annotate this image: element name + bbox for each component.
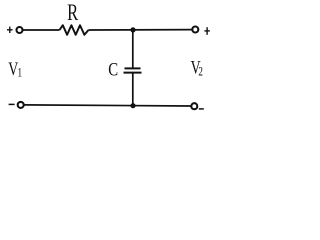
svg-text:R: R <box>67 1 79 26</box>
terminal top-right <box>192 27 198 33</box>
terminal bottom-right <box>191 103 197 109</box>
wire top-left segment <box>23 29 60 31</box>
terminal bottom-left <box>18 102 24 108</box>
capacitor C label <box>108 59 118 80</box>
wire bottom rail <box>24 105 191 106</box>
capacitor C bottom plate <box>124 72 142 74</box>
minus terminal label bottom-right <box>199 108 204 110</box>
minus terminal label bottom-left <box>9 103 15 105</box>
terminal top-left <box>17 27 23 33</box>
wire vertical top (node to capacitor) <box>132 30 134 68</box>
node V2 label <box>191 56 203 78</box>
svg-text:1: 1 <box>18 66 23 80</box>
svg-text:2: 2 <box>198 65 203 79</box>
label R <box>67 1 79 26</box>
svg-text:C: C <box>108 59 118 80</box>
node junction bottom <box>130 103 135 108</box>
node junction top <box>130 27 135 32</box>
wire vertical bottom (capacitor to bottom rail) <box>132 73 134 106</box>
wire top-right segment <box>89 29 192 31</box>
plus terminal label top-right <box>204 27 209 35</box>
capacitor C top plate <box>125 67 141 69</box>
resistor R <box>60 25 89 35</box>
node V1 label <box>8 58 22 80</box>
plus terminal label top-left <box>7 27 13 33</box>
